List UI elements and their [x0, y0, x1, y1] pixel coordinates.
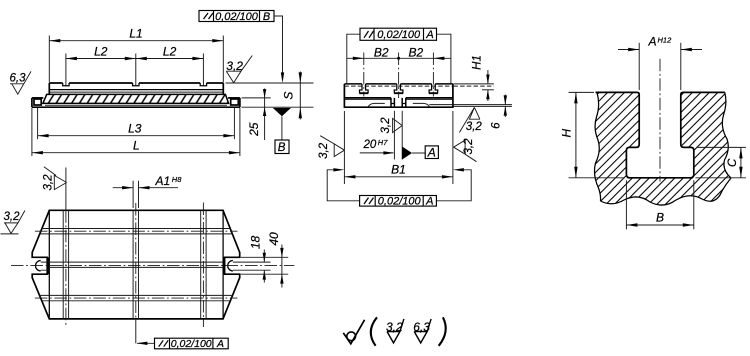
flange chamfer edge line [45, 104, 227, 106]
left edge [343, 84, 345, 108]
svg-text:B: B [656, 211, 664, 225]
C extension lines [697, 146, 746, 148]
svg-text:18: 18 [249, 236, 263, 250]
horizontal slot 1 centerline [35, 230, 238, 232]
svg-text:S: S [281, 92, 295, 100]
horizontal slot 2 centerline [11, 264, 294, 266]
B extension lines [625, 180, 627, 229]
svg-text:B2: B2 [409, 45, 424, 59]
flange top line right [228, 97, 240, 99]
svg-text:20: 20 [363, 139, 377, 151]
svg-text:3,2: 3,2 [4, 211, 21, 223]
frame leader arrow [281, 72, 284, 83]
svg-text:L1: L1 [129, 26, 142, 40]
H arrows [574, 92, 577, 103]
L extension line right [239, 108, 241, 156]
flange bottom line [32, 106, 240, 108]
horizontal slot 2 (center) lines [41, 262, 271, 270]
T-slot profile 3 [429, 84, 438, 93]
T-slot profile 2 [394, 84, 403, 93]
section band (hatched) [43, 94, 229, 103]
bottom surface extension line right [242, 106, 314, 108]
svg-text:3,2: 3,2 [43, 174, 55, 191]
svg-text:A: A [425, 29, 433, 41]
notch inner wall right (thick) [222, 257, 224, 274]
B dimension line [626, 224, 693, 226]
C arrows [739, 147, 742, 158]
L2 extension line slot2 [135, 54, 137, 86]
horizontal slot 3 lines [40, 295, 233, 300]
surface mark 3,2 rotated (top, slot centerline) [43, 167, 67, 191]
S arrow top [299, 72, 302, 83]
svg-text:H8: H8 [172, 175, 182, 184]
slot notch 2 [133, 83, 139, 86]
L3 extension line left [37, 108, 39, 139]
surface mark 3,2 rotated (center, tenon slot) [380, 117, 402, 134]
svg-text:L3: L3 [128, 121, 142, 135]
L3 dimension line [38, 135, 235, 137]
svg-text:6: 6 [491, 122, 503, 129]
slot notch 3 [200, 83, 206, 86]
datum B box [275, 140, 289, 154]
6 arrow top [504, 95, 507, 104]
L1 extension line right [222, 36, 224, 83]
L extension line left [31, 108, 33, 156]
svg-text:0,02/100: 0,02/100 [377, 29, 421, 41]
svg-text:B1: B1 [391, 163, 406, 177]
svg-text:B2: B2 [374, 45, 389, 59]
A1 extension lines [132, 181, 134, 208]
svg-text:6,3: 6,3 [10, 72, 27, 84]
B2 outside arrow right [433, 57, 444, 60]
broken edge left (freehand) [595, 92, 601, 201]
L3 arrow left [38, 134, 49, 137]
T-slot neck right wall [681, 92, 694, 174]
L1 arrow left [49, 39, 60, 42]
svg-text:H: H [559, 129, 573, 138]
frame leader right vertical [437, 34, 451, 84]
L2 extension line slot3 [202, 54, 204, 86]
40 arrows [280, 248, 283, 257]
L3 arrow right [223, 134, 234, 137]
40 dimension line [281, 245, 283, 288]
datum A leader [412, 152, 425, 154]
notch inner wall left (thick) [47, 257, 49, 274]
datum A box [425, 146, 438, 159]
plan outline (octagon with end notches) [32, 210, 240, 319]
top surface line (interrupted by slot notches) [49, 82, 223, 84]
parallelism tolerance frame (datum B ref) [199, 11, 274, 22]
frame leader to top surface [274, 16, 283, 73]
svg-text:0,02/100: 0,02/100 [171, 338, 212, 350]
parallelism tolerance frame (plan view, datum A) [155, 338, 229, 349]
L1 arrow right [212, 39, 223, 42]
vertical slot 2 centerline [135, 203, 137, 319]
svg-text:3,2: 3,2 [466, 121, 483, 133]
top surface line (interrupted by T-slot necks) [344, 83, 453, 85]
central tenon slot inner walls (20H7) [394, 98, 402, 107]
horizontal slot 3 centerline [35, 297, 238, 299]
B2 outside arrow left [353, 57, 364, 60]
legend surface mark 6,3 [413, 319, 431, 343]
S dimension line [299, 72, 301, 120]
L dimension line [32, 152, 240, 154]
L2 extension line slot1 [65, 54, 67, 86]
rail edge line right (plan) [222, 210, 224, 319]
rail left edge [48, 83, 50, 94]
flange top line left [32, 97, 43, 99]
vertical slot 3 lines [201, 210, 206, 319]
broken edge bottom (freehand) [601, 178, 732, 205]
datum B triangle on bottom surface [273, 108, 291, 116]
svg-text:A: A [648, 34, 657, 48]
6 arrow bottom [504, 106, 507, 115]
slot centerline [659, 59, 661, 182]
svg-text:A: A [425, 195, 433, 207]
18 arrows [263, 253, 266, 262]
H1 extension lines right [453, 83, 494, 85]
H1 dimension line [487, 70, 489, 84]
svg-text:C: C [727, 158, 739, 167]
svg-text:3,2: 3,2 [380, 117, 392, 134]
svg-text:A1: A1 [155, 174, 171, 188]
B1 dimension line [344, 176, 453, 178]
B2 chain dot [397, 57, 400, 60]
svg-text:B: B [278, 142, 286, 154]
40 extension lines [241, 256, 288, 258]
rail edge line left (plan) [48, 210, 50, 319]
H1 arrow top [486, 75, 489, 85]
svg-text:H12: H12 [658, 35, 673, 44]
slot centerline 2 [398, 53, 400, 99]
svg-text:40: 40 [267, 232, 281, 246]
L2 arrows at slot2 [125, 57, 136, 60]
B1 arrow left [344, 175, 355, 178]
datum B leader [281, 116, 283, 140]
surface mark 3,2 rotated (left edge) [318, 136, 344, 159]
vertical slot 3 centerline [202, 203, 204, 328]
longitudinal slot edge lower [49, 91, 223, 93]
L2 dimension line [66, 58, 204, 60]
L arrow left [32, 151, 43, 154]
L1 dimension line [49, 40, 223, 42]
B1 extension lines [343, 111, 345, 184]
vertical slot 2 lines (A1) [133, 210, 138, 319]
broken edge right (freehand) [722, 92, 731, 178]
lower frame leader right (arrow to side face) [436, 170, 471, 201]
T-slot neck left wall [626, 92, 639, 174]
frame leader left vertical [347, 34, 360, 84]
longitudinal slot edge upper [49, 89, 223, 91]
slot notch 1 [63, 83, 69, 86]
25 arrow bottom [263, 107, 266, 116]
surface mark 3,2 (left, plain) [1, 211, 25, 234]
svg-text:L2: L2 [94, 44, 108, 58]
svg-text:H7: H7 [378, 138, 388, 147]
B2 dimension line [347, 57, 451, 59]
A dimension line + outside arrows [618, 49, 639, 51]
central tenon slot outer walls [391, 98, 406, 107]
vertical slot 1 centerline [65, 168, 67, 211]
opening parenthesis [371, 317, 377, 346]
slot end cap left [36, 261, 41, 271]
svg-text:3,2: 3,2 [318, 142, 330, 159]
vertical slot 1 lines [63, 210, 68, 319]
H extension lines [569, 91, 595, 93]
material top surface right segment [683, 91, 725, 93]
surface mark 3,2 rotated (right edge) [454, 138, 477, 162]
material top surface left segment [596, 91, 637, 93]
right edge [452, 84, 454, 108]
flange left edge [31, 98, 33, 107]
surface mark 3,2 (right end of top surface) [226, 56, 252, 83]
bottom frame leader [135, 319, 137, 343]
parallelism tolerance frame (bottom, datum A) [360, 196, 437, 207]
H dimension line [575, 92, 577, 177]
flange-top extension line right (for 25) [242, 97, 271, 99]
step line (double) [344, 97, 391, 99]
surface mark 3,2 on bottom face (inverted) [459, 107, 482, 133]
lower frame leader left (arrow to side face) [327, 170, 359, 201]
surface mark 6,3 (left) [10, 71, 32, 94]
groove end curve right [413, 103, 430, 106]
H1 arrow bottom [486, 90, 489, 100]
legend surface mark 3,2 [386, 319, 404, 343]
svg-text:B: B [263, 11, 270, 23]
groove end curve left [368, 103, 385, 106]
svg-text:A: A [216, 338, 224, 350]
20H7 leader arrow [360, 152, 394, 154]
svg-text:H1: H1 [472, 55, 484, 70]
svg-text:0,02/100: 0,02/100 [378, 195, 422, 207]
top surface extension line right [226, 82, 314, 84]
datum A triangle [402, 147, 412, 160]
B1 arrow right [442, 175, 453, 178]
bottom edge chamfer line (right extension inside) [429, 104, 453, 106]
svg-text:A: A [427, 146, 436, 160]
closing parenthesis [439, 317, 446, 346]
svg-text:25: 25 [247, 122, 261, 137]
S arrow bottom [299, 107, 302, 118]
basic surface symbol with circle [343, 320, 364, 344]
svg-text:L: L [133, 138, 140, 152]
hatched material around T-slot [595, 92, 732, 205]
rail right edge [222, 83, 224, 94]
L2 arrow at slot3 [192, 57, 203, 60]
A dimension extension lines [638, 43, 640, 90]
tenon slot cross lines [391, 103, 406, 105]
25 dimension line [264, 89, 266, 141]
T-slot profile 1 [360, 84, 369, 93]
parallelism tolerance frame (top, datum A) [360, 28, 437, 40]
flange right edge [239, 98, 241, 107]
end notch left [34, 99, 41, 105]
B arrows [626, 223, 637, 226]
L3 extension line right [233, 108, 235, 139]
C dimension line [740, 147, 742, 177]
T-slot bottom [628, 177, 693, 179]
L arrow right [229, 151, 240, 154]
L1 extension line left [48, 36, 50, 83]
18 dimension line [263, 250, 265, 263]
end notch right [231, 99, 239, 105]
svg-text:L2: L2 [163, 44, 177, 58]
svg-text:0,02/100: 0,02/100 [215, 11, 259, 23]
hidden slot line (dashed) [344, 85, 453, 87]
6-dim extension lines right [453, 104, 512, 106]
slot centerline 3 [432, 53, 434, 97]
slot end cap right [228, 261, 233, 271]
slot centerline 1 [363, 53, 365, 97]
A1 dimension line + outside arrows [113, 187, 133, 189]
bottom line [344, 106, 453, 108]
svg-text:3,2: 3,2 [463, 138, 475, 155]
6 dimension line [504, 95, 506, 105]
tenon slot extension lines below [393, 111, 395, 160]
L2 arrow at slot1 [66, 57, 77, 60]
horizontal slot 1 lines [40, 229, 233, 234]
25 arrow top [263, 89, 266, 98]
